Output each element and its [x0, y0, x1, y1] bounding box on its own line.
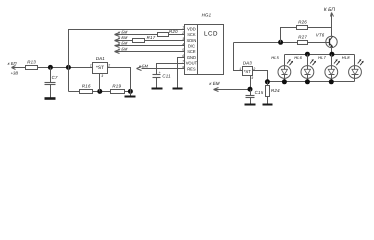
- pin number 8 of HG1: [182, 65, 184, 69]
- pin number 3 of HG1: [182, 37, 184, 41]
- node F emitter junction: [329, 52, 334, 57]
- wire emitter VT6: [331, 48, 333, 55]
- node C junction DA1 pin3: [97, 89, 102, 94]
- supervisor DA3: [243, 61, 253, 76]
- wire DA1 pin 2 to node D: [108, 68, 131, 92]
- svg-text:R26: R26: [298, 19, 307, 24]
- svg-text:3: 3: [182, 37, 184, 41]
- svg-text:к БМ: к БМ: [118, 29, 128, 34]
- svg-text:VDD: VDD: [187, 27, 196, 32]
- svg-text:к БМ: к БМ: [118, 35, 128, 40]
- LED HL7: [318, 55, 340, 82]
- svg-text:DA3: DA3: [243, 61, 252, 66]
- svg-text:3: 3: [251, 76, 253, 80]
- svg-text:*ST: *ST: [244, 69, 252, 74]
- node A junction C7: [48, 65, 53, 70]
- LED HL5: [271, 55, 293, 82]
- resistor R16: [80, 84, 93, 94]
- resistor R27: [298, 34, 308, 44]
- resistor R13: [26, 59, 38, 69]
- svg-text:VT6: VT6: [316, 33, 325, 38]
- pin number 3 of DA3: [251, 76, 253, 80]
- svg-text:R20: R20: [169, 29, 178, 34]
- pin number 7 of HG1: [182, 60, 184, 64]
- power input arrow к БП +3В: [8, 61, 19, 75]
- svg-text:2: 2: [107, 63, 110, 67]
- wire DA3 pin 2 to cathode rail: [253, 71, 268, 82]
- capacitor C15: [246, 90, 264, 98]
- LED HL6: [294, 55, 316, 82]
- pin number 1 of HG1: [182, 26, 184, 30]
- svg-text:R27: R27: [298, 34, 307, 39]
- LED cathode rail: [268, 81, 355, 83]
- pin number 4 of HG1: [182, 42, 184, 46]
- LCD module HG1: [185, 13, 224, 75]
- ground under C15: [245, 98, 256, 105]
- svg-text:к БП: к БП: [8, 61, 18, 66]
- svg-text:R17: R17: [147, 35, 156, 40]
- svg-text:HL7: HL7: [318, 55, 326, 60]
- wire bottom rail left segment: [69, 91, 80, 93]
- wire DA1 pin 3: [99, 74, 101, 92]
- wire SCK row left: [115, 34, 158, 36]
- ground under R24: [263, 97, 273, 105]
- wire pin 7 VOUT: [157, 64, 185, 75]
- svg-text:R16: R16: [82, 84, 91, 89]
- wire power input to R13: [12, 67, 26, 69]
- ground under C7: [45, 85, 56, 99]
- wire node B down to bottom rail: [68, 68, 70, 92]
- svg-text:1: 1: [90, 63, 92, 67]
- node J cathode HL5: [282, 79, 287, 84]
- svg-text:C15: C15: [255, 90, 264, 95]
- svg-text:*ST: *ST: [96, 65, 104, 71]
- node D junction ground: [128, 89, 133, 94]
- wire R26 left leg: [281, 28, 297, 43]
- svg-text:C7: C7: [52, 75, 58, 80]
- svg-text:RES: RES: [187, 66, 196, 71]
- svg-text:R13: R13: [27, 59, 36, 64]
- resistor R17: [133, 35, 156, 43]
- resistor R20: [158, 29, 179, 36]
- svg-text:R24: R24: [271, 88, 280, 93]
- power output arrow К БП: [324, 7, 336, 16]
- pin number 6 of HG1: [182, 54, 184, 58]
- LED anode rail: [285, 54, 355, 56]
- svg-text:1: 1: [182, 26, 184, 30]
- svg-text:D/C: D/C: [188, 43, 195, 48]
- svg-text:DA1: DA1: [96, 56, 105, 61]
- wire D/C row: [115, 45, 185, 47]
- pin number 2 of HG1: [181, 31, 184, 35]
- wire VDD riser and top rail: [69, 30, 185, 68]
- wire DA3 pin 3: [250, 76, 252, 90]
- svg-text:К БП: К БП: [324, 7, 336, 13]
- ground under C11: [152, 78, 163, 89]
- svg-text:к БМ: к БМ: [139, 64, 149, 69]
- wire pin 8 RES: [142, 68, 185, 70]
- svg-text:+: +: [159, 71, 161, 75]
- svg-text:к БМ: к БМ: [209, 81, 219, 86]
- node L cathode HL7: [329, 79, 334, 84]
- wire R20 to pin 2: [169, 34, 185, 36]
- svg-text:к БМ: к БМ: [118, 46, 128, 51]
- svg-text:HG1: HG1: [202, 13, 212, 18]
- svg-text:HL8: HL8: [342, 55, 350, 60]
- off-page arrow к БМ row 4: [115, 46, 129, 53]
- svg-text:SCK: SCK: [187, 32, 196, 37]
- resistor R19: [111, 84, 125, 94]
- wire R17 to pin 3: [145, 40, 185, 42]
- wire R19 to node D: [125, 91, 131, 93]
- wire R13 to node A: [38, 67, 93, 69]
- svg-text:1: 1: [239, 67, 241, 71]
- svg-text:GND: GND: [187, 55, 196, 60]
- svg-text:VOUT: VOUT: [186, 61, 198, 66]
- capacitor C7: [45, 68, 59, 85]
- svg-text:2: 2: [181, 31, 184, 35]
- ground under pin 6: [173, 88, 183, 90]
- pin number 3 of DA1: [101, 74, 103, 78]
- off-page arrow к БМ RES: [137, 64, 149, 71]
- off-page arrow к БМ bottom: [209, 81, 219, 92]
- svg-text:C11: C11: [162, 73, 171, 78]
- LED HL8: [342, 55, 364, 82]
- svg-text:+3В: +3В: [11, 70, 19, 75]
- node H junction DA3 out: [265, 79, 270, 84]
- svg-text:HL6: HL6: [294, 55, 302, 60]
- wire R16 to node C: [93, 91, 111, 93]
- node B junction VDD riser: [66, 65, 71, 70]
- svg-text:5: 5: [182, 48, 184, 52]
- supervisor DA1: [93, 56, 108, 73]
- pin number 5 of HG1: [182, 48, 184, 52]
- wire rail down to DA3 pin 1: [234, 43, 243, 71]
- resistor R24 vertical: [266, 82, 281, 97]
- node K cathode HL6: [305, 79, 310, 84]
- pin number 2 of DA3: [252, 67, 255, 71]
- transistor VT6: [316, 33, 337, 48]
- ground under node D: [125, 92, 136, 97]
- svg-text:SDIN: SDIN: [187, 38, 197, 43]
- svg-text:3: 3: [101, 74, 103, 78]
- pin number 1 of DA1: [90, 63, 92, 67]
- off-page arrow к БМ row 3: [115, 41, 129, 48]
- svg-text:к БМ: к БМ: [118, 41, 128, 46]
- top right rail: [234, 42, 327, 44]
- pin number 1 of DA3: [239, 67, 241, 71]
- svg-text:R19: R19: [112, 84, 121, 89]
- wire collector VT6: [331, 13, 333, 37]
- bottom output wire: [214, 89, 251, 91]
- svg-text:HL5: HL5: [271, 55, 279, 60]
- wire SCE row: [115, 51, 185, 53]
- pin number 2 of DA1: [107, 63, 110, 67]
- node E junction R26 tap: [278, 40, 283, 45]
- resistor R26: [297, 19, 308, 29]
- node G anode HL6: [305, 52, 310, 57]
- wire pin 6 GND: [178, 58, 185, 89]
- svg-text:LCD: LCD: [204, 30, 218, 37]
- wire R26 to collector line: [308, 27, 332, 29]
- off-page arrow к БМ row 2: [115, 35, 129, 42]
- node I junction C15: [248, 87, 253, 92]
- capacitor C11 polarized: [153, 71, 172, 79]
- svg-text:SCE: SCE: [187, 49, 196, 54]
- svg-text:4: 4: [182, 42, 184, 46]
- wire SDIN row left: [115, 40, 133, 42]
- off-page arrow к БМ row 1: [115, 29, 129, 36]
